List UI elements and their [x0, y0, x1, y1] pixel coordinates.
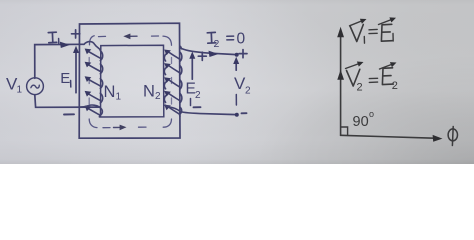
I2 current arrowhead: [209, 51, 219, 57]
svg-text:1: 1: [17, 85, 23, 96]
vector arrow over V2: [346, 63, 361, 69]
polarity - (V2 bottom): [242, 112, 247, 114]
phasor V2 arrowhead: [337, 70, 344, 80]
polarity - (primary bottom): [64, 113, 74, 115]
phasor V1 arrowhead: [337, 27, 344, 37]
svg-text:90: 90: [353, 114, 369, 130]
phasor vertical axis (V1=E1 phasor): [340, 37, 342, 136]
label I2 = 0 (secondary current): [207, 32, 233, 43]
paper background: [0, 0, 474, 164]
flux arrow (top, pointing left): [130, 35, 138, 37]
svg-text:o: o: [369, 109, 374, 119]
svg-text:2: 2: [245, 86, 251, 97]
coil N1 (primary winding): [81, 42, 103, 117]
node: secondary bottom terminal: [235, 113, 239, 117]
vector arrow over E1: [379, 19, 394, 25]
wire: N2 bottom to open terminal: [180, 112, 237, 115]
phi flux axis (horizontal): [341, 135, 434, 138]
polarity + (V2 top): [239, 50, 247, 58]
label I1 (primary current): [48, 32, 59, 43]
svg-text:0: 0: [237, 31, 246, 48]
svg-text:2: 2: [392, 80, 398, 92]
svg-text:1: 1: [116, 92, 122, 103]
svg-text:N: N: [143, 83, 155, 101]
label V1 = E1 phasor: [350, 24, 393, 43]
flux arrow (bottom, pointing right): [114, 126, 121, 128]
polarity - (E2 bottom): [194, 106, 201, 108]
node: secondary top terminal: [235, 53, 239, 57]
V2 voltage arrow: [235, 63, 237, 71]
vector arrow over E2: [380, 64, 394, 69]
svg-text:2: 2: [357, 82, 363, 94]
blue text labels: [6, 31, 251, 103]
phi symbol: [448, 129, 457, 141]
E2 dashed reference line: [190, 99, 192, 106]
svg-text:2: 2: [155, 91, 161, 102]
polarity + (primary top): [72, 30, 80, 38]
wire: source bottom to N1 bottom: [35, 95, 100, 107]
svg-text:E: E: [60, 70, 70, 87]
V2 dashed reference line: [235, 95, 237, 106]
svg-text:2: 2: [195, 90, 201, 101]
label V2 = E2 phasor: [347, 68, 394, 86]
phi axis arrowhead: [433, 135, 443, 142]
E1 emf arrow: [75, 51, 77, 93]
svg-text:2: 2: [214, 38, 220, 50]
wire: source top to N1 top: [35, 44, 84, 78]
coil N2 (secondary winding): [164, 46, 182, 116]
core window (inner boundary): [101, 45, 164, 117]
E2 emf arrow: [191, 57, 193, 80]
I1 current arrowhead: [60, 42, 70, 48]
wire: N2 top to open terminal: [182, 49, 237, 55]
source V1 (AC): [27, 78, 44, 95]
flux path (dashed, hand-drawn): [89, 36, 171, 128]
vector arrow over V1: [350, 20, 364, 26]
svg-text:N: N: [104, 83, 116, 101]
core outer boundary: [79, 23, 180, 138]
polarity + (E2 top): [198, 52, 206, 60]
right-angle marker: [341, 127, 348, 135]
